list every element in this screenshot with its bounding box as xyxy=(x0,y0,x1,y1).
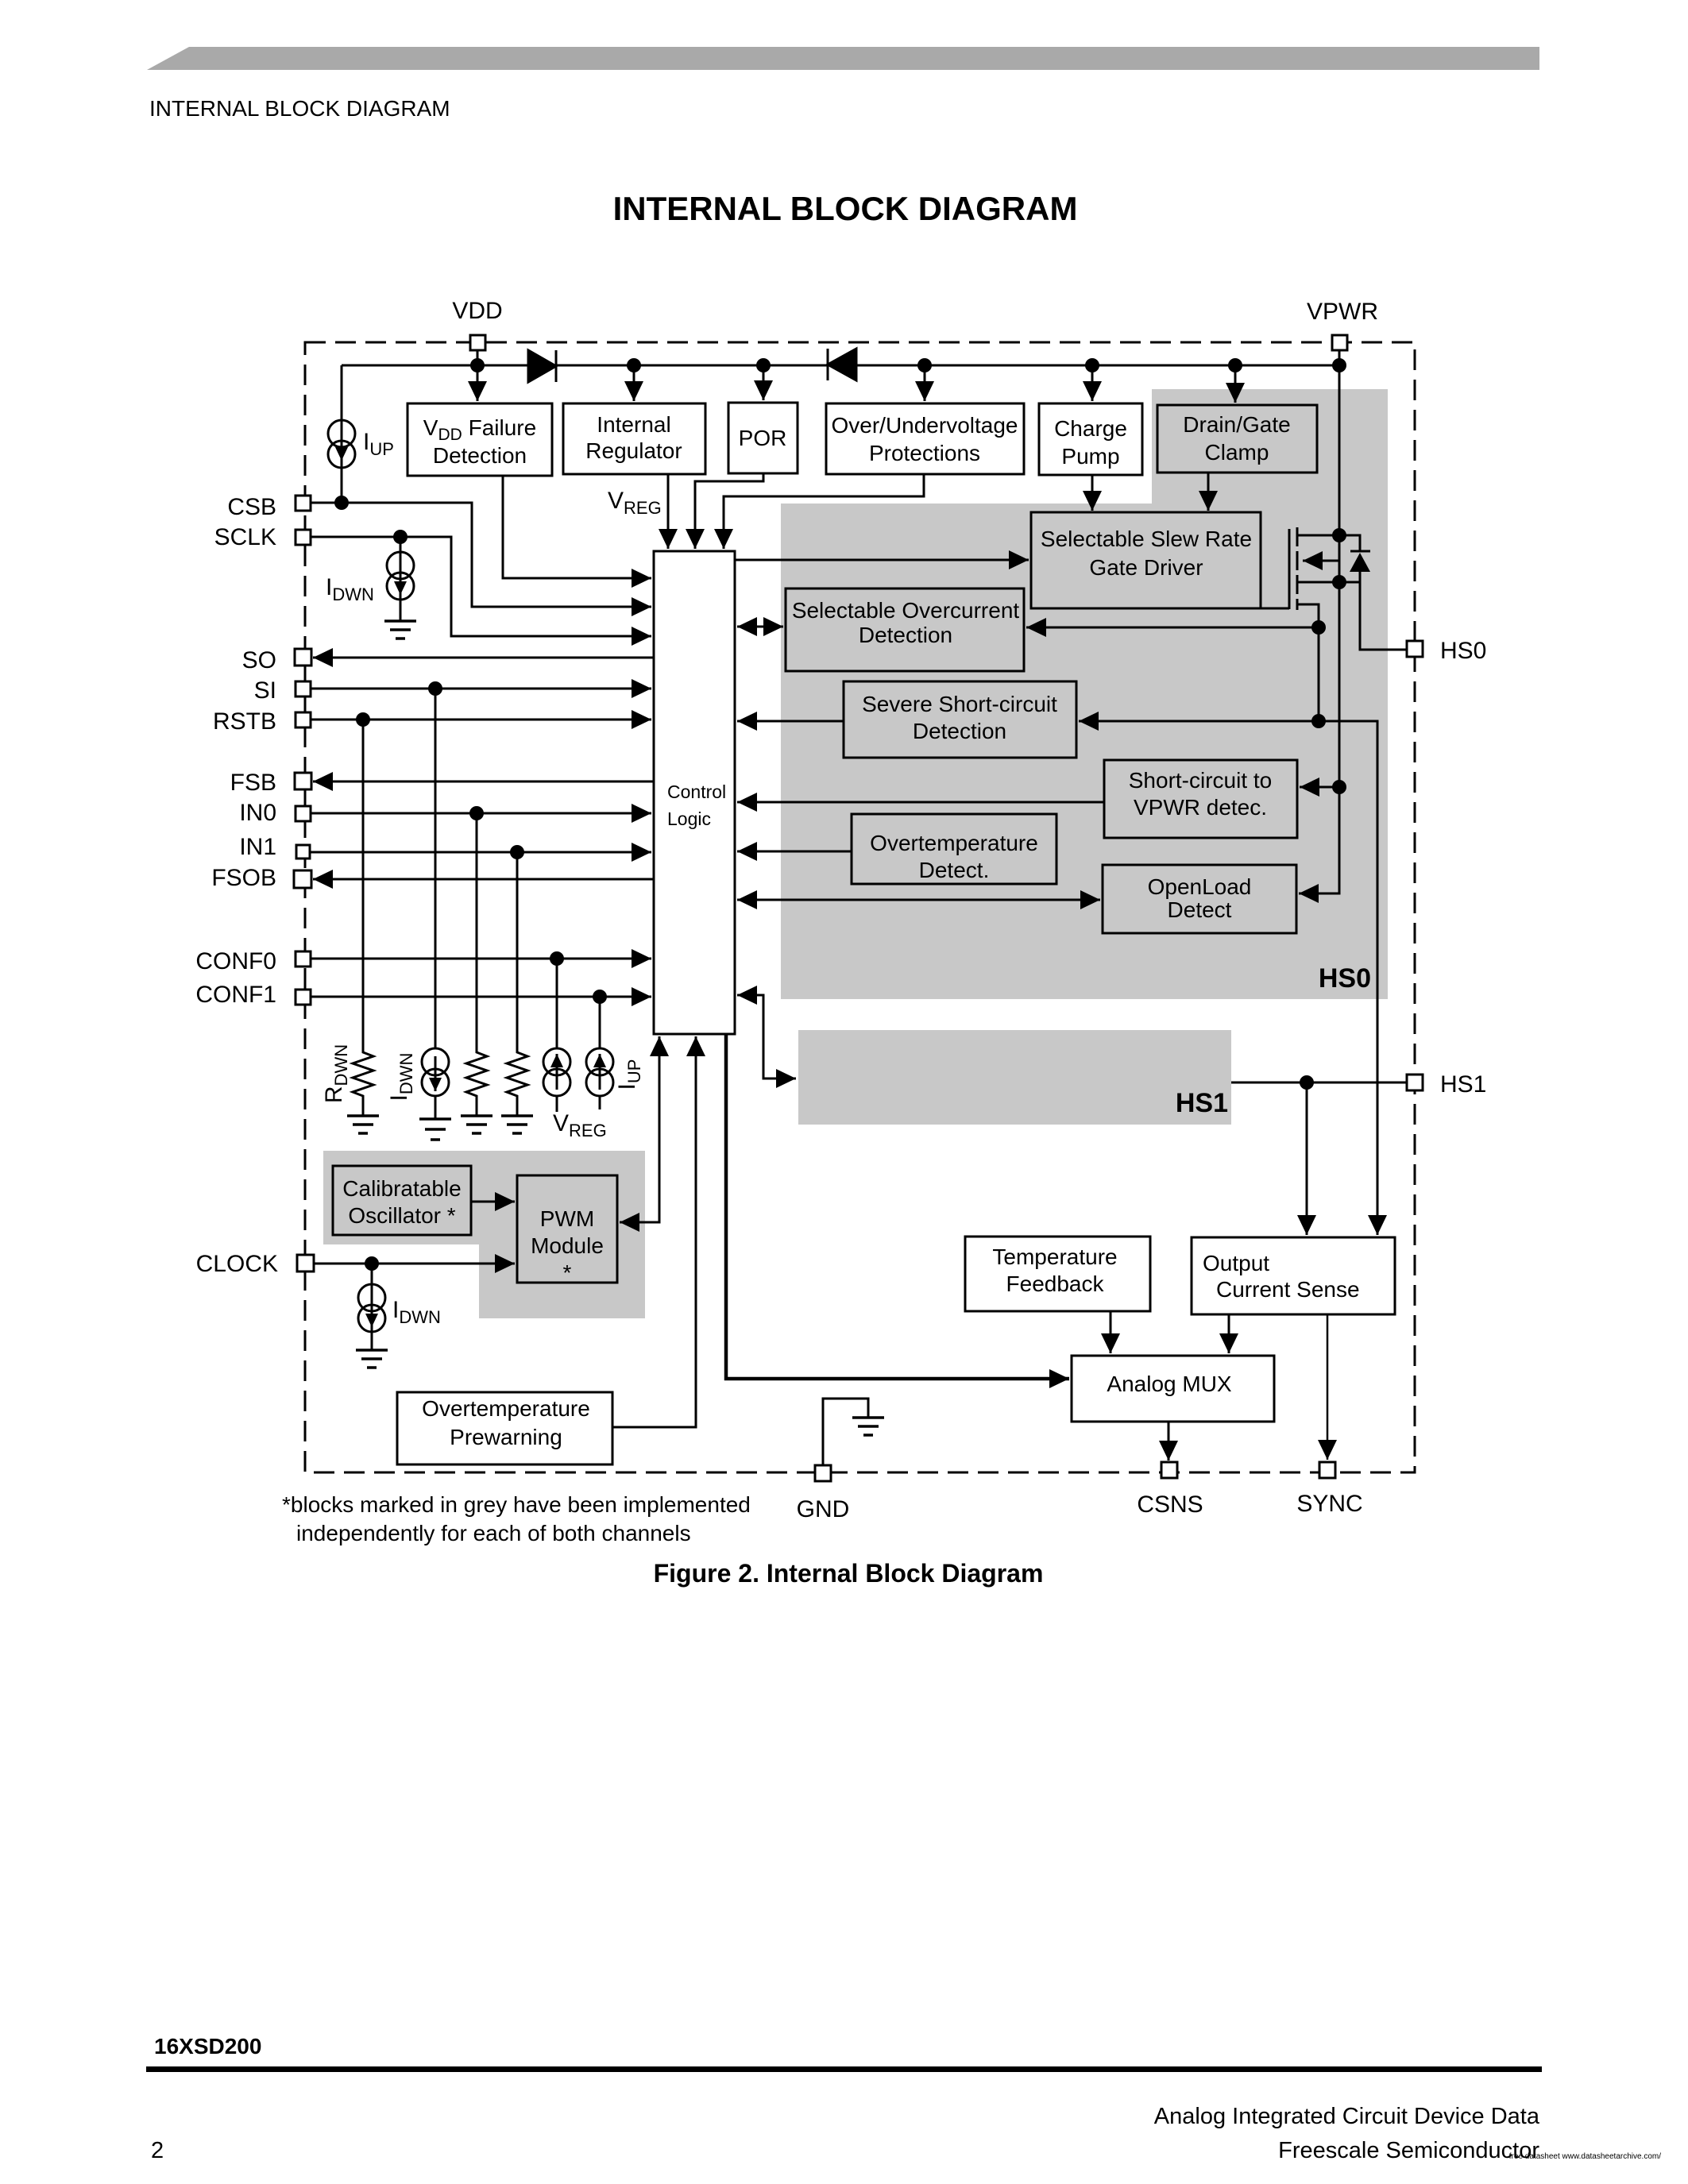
svg-text:Detection: Detection xyxy=(433,443,527,468)
svg-text:IDWN: IDWN xyxy=(386,1053,416,1102)
svg-text:Clamp: Clamp xyxy=(1205,440,1269,465)
svg-text:IDWN: IDWN xyxy=(326,574,374,604)
svg-text:Control: Control xyxy=(667,781,726,802)
svg-text:Overtemperature: Overtemperature xyxy=(870,831,1038,855)
svg-text:Module: Module xyxy=(531,1233,604,1258)
svg-text:Figure 2. Internal Block Diagr: Figure 2. Internal Block Diagram xyxy=(654,1559,1044,1588)
svg-text:Analog Integrated Circuit Devi: Analog Integrated Circuit Device Data xyxy=(1154,2104,1540,2129)
svg-text:Short-circuit to: Short-circuit to xyxy=(1129,768,1273,793)
svg-text:Pump: Pump xyxy=(1061,444,1119,469)
svg-text:Selectable Slew Rate: Selectable Slew Rate xyxy=(1041,527,1252,551)
svg-text:RDWN: RDWN xyxy=(321,1044,351,1103)
svg-text:CSB: CSB xyxy=(227,494,276,520)
svg-text:INTERNAL BLOCK DIAGRAM: INTERNAL BLOCK DIAGRAM xyxy=(613,190,1078,227)
svg-text:IN0: IN0 xyxy=(239,800,276,826)
svg-text:Freescale Semiconductor: Freescale Semiconductor xyxy=(1278,2138,1539,2163)
svg-text:Detect.: Detect. xyxy=(919,858,990,882)
svg-text:Detection: Detection xyxy=(913,719,1006,743)
svg-text:VPWR detec.: VPWR detec. xyxy=(1134,795,1267,820)
svg-text:Current Sense: Current Sense xyxy=(1216,1277,1360,1302)
svg-text:SI: SI xyxy=(254,677,276,704)
svg-text:FSOB: FSOB xyxy=(211,865,276,891)
svg-text:VPWR: VPWR xyxy=(1307,299,1378,325)
svg-text:POR: POR xyxy=(739,426,787,450)
svg-text:*: * xyxy=(563,1260,572,1285)
svg-text:HS1: HS1 xyxy=(1440,1071,1486,1098)
svg-text:CSNS: CSNS xyxy=(1137,1491,1203,1518)
svg-text:Regulator: Regulator xyxy=(585,438,682,463)
svg-text:Internal: Internal xyxy=(597,412,670,437)
svg-text:Feedback: Feedback xyxy=(1006,1271,1105,1296)
svg-text:Calibratable: Calibratable xyxy=(342,1176,461,1201)
svg-text:Detect: Detect xyxy=(1168,897,1232,922)
svg-text:HS0: HS0 xyxy=(1319,963,1371,994)
svg-text:Overtemperature: Overtemperature xyxy=(422,1396,590,1421)
svg-text:VREG: VREG xyxy=(608,488,662,518)
svg-text:GND: GND xyxy=(797,1496,850,1522)
svg-text:Detection: Detection xyxy=(859,623,952,647)
svg-text:CONF0: CONF0 xyxy=(195,948,276,974)
svg-text:IUP: IUP xyxy=(363,429,394,459)
svg-text:INTERNAL BLOCK DIAGRAM: INTERNAL BLOCK DIAGRAM xyxy=(149,96,450,121)
svg-text:CONF1: CONF1 xyxy=(195,982,276,1008)
svg-text:Severe Short-circuit: Severe Short-circuit xyxy=(862,692,1057,716)
svg-text:VREG: VREG xyxy=(553,1110,607,1140)
svg-text:RSTB: RSTB xyxy=(213,708,276,735)
svg-text:*blocks marked in grey have be: *blocks marked in grey have been impleme… xyxy=(282,1492,751,1517)
svg-text:IUP: IUP xyxy=(614,1059,644,1090)
svg-text:SO: SO xyxy=(242,647,276,673)
svg-text:Analog MUX: Analog MUX xyxy=(1107,1372,1232,1396)
svg-text:CLOCK: CLOCK xyxy=(196,1251,278,1277)
svg-text:VDD: VDD xyxy=(452,298,502,324)
svg-text:free datasheet www.datasheetar: free datasheet www.datasheetarchive.com/ xyxy=(1509,2152,1661,2161)
svg-text:SCLK: SCLK xyxy=(214,524,276,550)
svg-text:Protections: Protections xyxy=(869,441,980,465)
svg-text:OpenLoad: OpenLoad xyxy=(1148,874,1252,899)
svg-text:Oscillator *: Oscillator * xyxy=(348,1203,455,1228)
svg-text:IN1: IN1 xyxy=(239,834,276,860)
svg-text:Gate Driver: Gate Driver xyxy=(1089,555,1203,580)
svg-text:Logic: Logic xyxy=(667,808,711,829)
svg-text:2: 2 xyxy=(151,2138,164,2163)
svg-text:Charge: Charge xyxy=(1054,416,1127,441)
svg-text:Prewarning: Prewarning xyxy=(450,1425,562,1449)
svg-text:Output: Output xyxy=(1203,1251,1269,1275)
svg-text:Drain/Gate: Drain/Gate xyxy=(1183,412,1290,437)
svg-text:FSB: FSB xyxy=(230,770,276,796)
svg-text:IDWN: IDWN xyxy=(392,1297,441,1327)
svg-text:16XSD200: 16XSD200 xyxy=(154,2034,261,2059)
svg-text:Temperature: Temperature xyxy=(992,1244,1117,1269)
svg-text:independently for each of both: independently for each of both channels xyxy=(296,1521,691,1545)
svg-text:Selectable Overcurrent: Selectable Overcurrent xyxy=(792,598,1020,623)
svg-text:HS1: HS1 xyxy=(1176,1088,1228,1118)
svg-text:SYNC: SYNC xyxy=(1296,1491,1362,1517)
svg-text:HS0: HS0 xyxy=(1440,638,1486,664)
svg-text:PWM: PWM xyxy=(540,1206,594,1231)
svg-text:Over/Undervoltage: Over/Undervoltage xyxy=(831,413,1018,438)
